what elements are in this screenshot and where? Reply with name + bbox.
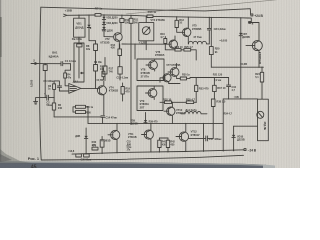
- diode VD9: [145, 113, 147, 121]
- svg-text:КТ801Б: КТ801Б: [141, 71, 150, 75]
- zener VD1 box: [74, 18, 85, 37]
- node e6: [213, 123, 214, 124]
- svg-text:С17 433мк: С17 433мк: [209, 137, 222, 141]
- node a3: [130, 15, 131, 16]
- svg-text:КТ361Б: КТ361Б: [109, 89, 118, 93]
- svg-text:45: 45: [31, 164, 37, 168]
- transistor VT9b: [148, 89, 157, 98]
- diode VD8: [85, 128, 87, 136]
- resistor R5b: [76, 111, 86, 114]
- resistor R41: [158, 138, 160, 140]
- svg-text:VT4 КТ815Е: VT4 КТ815Е: [150, 18, 165, 22]
- top supply rail: [67, 15, 248, 18]
- wire y126: [234, 125, 258, 127]
- svg-text:2ЛГ: 2ЛГ: [140, 106, 145, 110]
- node f2: [240, 98, 241, 99]
- svg-text:VT7 КТ805Б: VT7 КТ805Б: [166, 63, 180, 67]
- node d5: [196, 102, 197, 103]
- transistor VT10: [167, 107, 175, 115]
- svg-text:КТ801У: КТ801У: [191, 133, 200, 137]
- node e4: [172, 123, 173, 124]
- resistor R45: [92, 147, 98, 150]
- svg-text:+18В: +18В: [65, 9, 73, 13]
- wire y44: [122, 43, 171, 45]
- node g8: [223, 150, 224, 151]
- svg-text:КТ801Б: КТ801Б: [155, 53, 164, 57]
- node g7: [203, 151, 204, 152]
- svg-text:С14 47мк: С14 47мк: [105, 116, 117, 120]
- svg-text:740: 740: [109, 69, 114, 73]
- node d6: [172, 102, 173, 103]
- resistor R20: [210, 17, 212, 46]
- node a5: [176, 16, 177, 17]
- svg-text:R39 470: R39 470: [149, 121, 159, 124]
- svg-text:27 ЛГн: 27 ЛГн: [141, 74, 150, 78]
- svg-text:С8 0,22мк: С8 0,22мк: [214, 27, 227, 31]
- potentiometer R6: [74, 43, 84, 82]
- ground input: [34, 98, 40, 105]
- wire v203: [203, 123, 205, 151]
- svg-text:+24 В: +24 В: [254, 14, 263, 18]
- svg-text:R7 1к: R7 1к: [95, 6, 103, 10]
- svg-text:0,5м: 0,5м: [127, 147, 132, 149]
- speaker: [257, 111, 264, 118]
- node g9: [233, 150, 234, 151]
- resistor R35: [186, 101, 193, 104]
- resistor R3: [53, 84, 56, 90]
- svg-text:R25 4,7: R25 4,7: [184, 45, 193, 49]
- resistor R22: [175, 49, 181, 52]
- transistor VT7: [170, 68, 179, 77]
- node g10: [150, 151, 151, 152]
- capacitor C8: [207, 17, 211, 44]
- wire v135: [134, 44, 136, 59]
- svg-text:КД445А: КД445А: [49, 54, 59, 58]
- terminal 2: [248, 18, 251, 22]
- svg-text:Д814Д: Д814Д: [75, 25, 83, 29]
- node c3: [45, 97, 46, 98]
- node a1: [103, 14, 104, 15]
- wire long vertical: [130, 23, 132, 123]
- svg-text:100: 100: [125, 21, 130, 25]
- wire input: [37, 63, 61, 65]
- svg-text:Д223Б: Д223Б: [237, 138, 245, 142]
- node g1: [86, 153, 87, 154]
- resistor R32: [165, 101, 172, 104]
- node b1: [258, 67, 259, 68]
- page crease: [126, 0, 290, 14]
- transistor VT5: [183, 28, 191, 36]
- frame left edge: [40, 7, 42, 160]
- transistor VT8: [149, 61, 158, 70]
- svg-text:R32 10: R32 10: [163, 97, 172, 101]
- svg-text:4ГД-8Е: 4ГД-8Е: [263, 122, 267, 131]
- svg-text:VD4 Д220: VD4 Д220: [106, 21, 118, 25]
- wire diode chain: [104, 15, 113, 37]
- diode VD7: [240, 18, 242, 33]
- resistor R23: [181, 49, 184, 51]
- node g4: [167, 151, 168, 152]
- svg-text:VT12: VT12: [191, 130, 198, 134]
- transistor VT11b: [144, 130, 153, 139]
- node t8c: [116, 123, 117, 124]
- svg-text:R34 4,7: R34 4,7: [224, 113, 233, 116]
- svg-text:47 Гмк: 47 Гмк: [193, 35, 202, 39]
- terminal -24V: [244, 149, 246, 151]
- svg-text:С20 50мк: С20 50мк: [81, 159, 92, 162]
- inductor L1: [189, 41, 210, 44]
- resistor R2: [53, 98, 55, 103]
- terminal +24V: [251, 14, 253, 16]
- capacitor C17: [189, 136, 214, 141]
- svg-text:Rв 100к: Rв 100к: [72, 37, 83, 41]
- svg-text:VD3 Д220: VD3 Д220: [106, 16, 118, 20]
- left edge streak: [0, 17, 2, 57]
- transistor VT9: [252, 41, 262, 51]
- svg-text:С3 100мк: С3 100мк: [43, 79, 55, 83]
- node g5: [185, 123, 186, 124]
- svg-text:КТ801Б: КТ801Б: [176, 111, 185, 115]
- svg-text:R22 10: R22 10: [175, 45, 184, 49]
- resistor R13: [147, 15, 153, 18]
- node c4: [54, 97, 55, 98]
- resistor R8: [95, 41, 97, 44]
- node a8: [211, 17, 212, 18]
- wire y99: [223, 98, 257, 100]
- node a2: [121, 15, 122, 16]
- transistor VT7b: [163, 74, 171, 82]
- wire y102: [160, 101, 165, 103]
- resistor R42: [167, 138, 169, 140]
- resistor R16: [164, 37, 166, 39]
- svg-text:0,25 В: 0,25 В: [30, 80, 34, 87]
- transistor VT12: [179, 132, 188, 141]
- resistor R10: [121, 15, 123, 18]
- resistor R4: [64, 73, 67, 78]
- diode VD2: [102, 27, 105, 30]
- diode VD10: [233, 126, 235, 135]
- wire opamp in2: [59, 90, 68, 92]
- frame top edge: [41, 7, 251, 14]
- svg-text:Д9Б: Д9Б: [75, 134, 80, 138]
- node g3: [159, 152, 160, 153]
- resistor R5a: [76, 105, 86, 108]
- resistor R19: [122, 83, 124, 87]
- resistor R11: [130, 15, 132, 18]
- node b3: [78, 15, 79, 16]
- svg-text:≈0,8 В: ≈0,8 В: [219, 38, 227, 42]
- node t8e: [116, 152, 117, 153]
- node e5: [203, 123, 204, 124]
- resistor R33: [195, 78, 197, 85]
- node e1: [102, 123, 103, 124]
- resistor R1: [44, 63, 46, 66]
- svg-text:R37 10: R37 10: [217, 86, 226, 90]
- svg-text:ДА1: ДА1: [73, 79, 79, 83]
- bottom rail: [72, 150, 244, 154]
- resistor R15: [102, 71, 105, 77]
- meter PA1: [142, 27, 150, 35]
- resistor R12: [176, 17, 178, 21]
- svg-text:R30 1к: R30 1к: [182, 73, 191, 77]
- meter PA1 box: [145, 16, 147, 23]
- svg-text:КТ805АМ: КТ805АМ: [258, 52, 262, 65]
- node g2: [102, 153, 103, 154]
- node f3: [261, 98, 262, 99]
- resistor R43: [76, 154, 82, 157]
- svg-text:С13 0,1мк: С13 0,1мк: [116, 75, 128, 79]
- capacitor C10: [227, 78, 231, 99]
- capacitor C14: [101, 116, 105, 124]
- svg-text:VD1: VD1: [76, 21, 82, 25]
- diode VD4: [102, 22, 105, 25]
- resistor R17: [104, 58, 106, 67]
- resistor R30: [180, 77, 186, 80]
- wire R5 links: [73, 107, 88, 124]
- resistor R18: [118, 67, 122, 74]
- resistor R37: [213, 78, 215, 86]
- resistor R9: [94, 65, 98, 72]
- node a9: [240, 17, 241, 18]
- svg-text:в: в: [252, 21, 254, 25]
- svg-text:−24 В: −24 В: [248, 149, 257, 153]
- wire v223: [222, 99, 224, 151]
- svg-text:Рис. 1: Рис. 1: [28, 156, 40, 161]
- svg-text:VT10: VT10: [176, 108, 183, 112]
- svg-text:Др1 2мГн: Др1 2мГн: [185, 108, 197, 112]
- transistor VT11: [111, 130, 120, 139]
- svg-text:R35 4,7: R35 4,7: [186, 97, 195, 101]
- node e2: [130, 123, 131, 124]
- svg-text:240: 240: [134, 20, 139, 24]
- svg-text:≈0В: ≈0В: [234, 95, 239, 99]
- resistor R7: [95, 14, 101, 17]
- svg-text:R13 1к: R13 1к: [148, 10, 157, 14]
- node b2: [261, 67, 262, 68]
- thermal box A: [137, 59, 164, 81]
- node e3: [146, 123, 147, 124]
- svg-text:Д223Б: Д223Б: [130, 122, 138, 125]
- transistor VT6: [169, 40, 177, 48]
- svg-text:430: 430: [111, 46, 116, 50]
- zener VD5: [88, 15, 90, 25]
- node a7: [209, 17, 210, 18]
- capacitor C2: [40, 95, 54, 100]
- resistor R40: [101, 137, 103, 140]
- svg-text:VT9: VT9: [140, 99, 145, 103]
- svg-text:430: 430: [162, 144, 167, 147]
- wire y117: [54, 116, 101, 118]
- op-amp DA1: [69, 84, 81, 94]
- input terminal: [31, 62, 37, 64]
- svg-text:VD2 Д220: VD2 Д220: [102, 29, 114, 33]
- resistor R24: [261, 67, 263, 72]
- node d3: [174, 49, 175, 50]
- svg-text:240: 240: [58, 106, 63, 110]
- svg-text:КТ806Б: КТ806Б: [192, 27, 201, 31]
- node d2: [134, 43, 135, 44]
- wire y123: [88, 122, 223, 124]
- wire mid right: [211, 66, 263, 68]
- transistor VT2: [114, 33, 123, 42]
- svg-text:VT2: VT2: [105, 37, 110, 41]
- svg-text:С1 0,1мк: С1 0,1мк: [65, 59, 77, 63]
- inductor L2: [181, 112, 207, 114]
- node c1: [45, 63, 46, 64]
- svg-text:100: 100: [100, 67, 105, 71]
- svg-text:+1,2В: +1,2В: [139, 41, 146, 45]
- resistor R44: [84, 154, 90, 157]
- resistor R38: [211, 99, 215, 107]
- resistor R14: [119, 44, 121, 49]
- svg-text:КТ315Б: КТ315Б: [100, 41, 109, 45]
- thermal box B: [137, 86, 163, 111]
- svg-text:≈6,7В: ≈6,7В: [96, 78, 103, 82]
- svg-text:430: 430: [170, 144, 175, 147]
- svg-text:КТ361Б: КТ361Б: [101, 139, 110, 143]
- svg-text:2,2 мк: 2,2 мк: [214, 78, 222, 82]
- speaker box: [258, 99, 269, 141]
- node a4: [146, 15, 147, 16]
- page bottom edge dark band: [0, 161, 266, 168]
- node d1: [130, 43, 131, 44]
- svg-text:КТ801Б: КТ801Б: [128, 136, 137, 139]
- transistor VT3: [97, 86, 106, 95]
- diode VD3: [102, 17, 105, 20]
- capacitor C3: [57, 83, 61, 91]
- svg-text:≈0,6В: ≈0,6В: [240, 62, 247, 66]
- wire y82: [160, 78, 180, 84]
- wire opamp out: [81, 87, 100, 89]
- node d4: [214, 77, 215, 78]
- node f1: [228, 98, 229, 99]
- node a6: [188, 17, 189, 18]
- svg-text:Д223Б: Д223Б: [242, 35, 250, 39]
- frame bottom edge: [41, 155, 243, 160]
- svg-text:Д9Б: Д9Б: [127, 144, 132, 146]
- svg-text:ВА1: ВА1: [52, 51, 58, 55]
- capacitor C1: [61, 62, 71, 66]
- terminal +18V arrow: [64, 14, 67, 16]
- svg-text:R38 1,5: R38 1,5: [216, 100, 225, 104]
- svg-text:R33 470: R33 470: [199, 86, 209, 90]
- node g11: [150, 123, 151, 124]
- svg-text:R21 120: R21 120: [213, 72, 223, 76]
- node g6: [185, 151, 186, 152]
- svg-text:≈13,8: ≈13,8: [68, 149, 75, 153]
- svg-text:470: 470: [92, 145, 97, 148]
- node c2: [95, 88, 96, 89]
- svg-text:R9 18к: R9 18к: [94, 60, 103, 64]
- svg-text:470: 470: [125, 90, 130, 94]
- wire to opamp: [65, 64, 70, 73]
